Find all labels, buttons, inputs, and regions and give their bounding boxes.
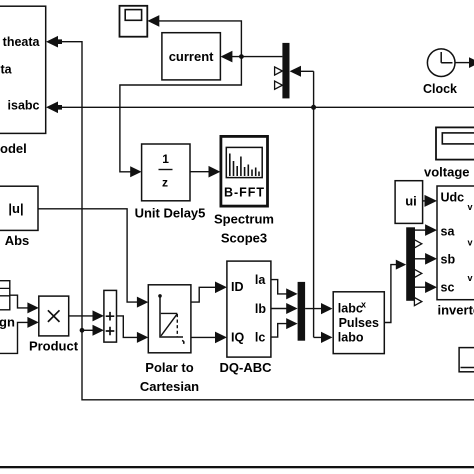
svg-text:voltage: voltage — [424, 164, 470, 179]
svg-text:ta: ta — [1, 63, 13, 77]
wire Ia to mux — [271, 280, 287, 294]
wire demux2 sb — [415, 258, 426, 260]
arrow into inverter sb — [425, 253, 437, 265]
demux2 bar — [406, 227, 415, 300]
block DQ-ABC — [220, 261, 273, 375]
svg-text:B-FFT: B-FFT — [224, 186, 265, 200]
svg-text:v: v — [468, 238, 473, 248]
svg-text:Udc: Udc — [441, 191, 465, 205]
svg-text:labc: labc — [338, 302, 363, 316]
arrow clock output — [469, 57, 474, 68]
block sign (cut off at left) — [0, 281, 15, 330]
wire branch to sum input 2 — [82, 329, 94, 331]
arrow into labc* — [321, 303, 333, 314]
arrow into labo — [321, 332, 333, 343]
wire pulses output to demux2 — [384, 265, 396, 323]
arrow into inverter sc — [425, 281, 437, 293]
arrow into B-FFT — [209, 166, 221, 178]
svg-text:x: x — [361, 300, 366, 310]
svg-text:lb: lb — [255, 302, 266, 316]
block sum — [104, 290, 117, 342]
wire ui output — [423, 200, 427, 202]
svg-text:ui: ui — [405, 194, 417, 209]
bottom separator line — [0, 466, 474, 468]
wire Ib to mux — [271, 308, 287, 310]
wire bus tap down to labo and up to demux1 — [301, 71, 323, 337]
wire demux1 out1 to current/scope/delay — [120, 21, 283, 172]
arrow into product input 1 — [27, 302, 38, 313]
svg-text:Cartesian: Cartesian — [140, 379, 199, 394]
wire isabc bus — [57, 106, 474, 108]
svg-text:v: v — [468, 273, 473, 283]
arrow into polar input 2 — [137, 332, 148, 343]
arrow into isabc — [46, 102, 62, 114]
svg-text:sc: sc — [441, 281, 455, 295]
svg-text:DQ-ABC: DQ-ABC — [220, 360, 273, 375]
wire mux output to labc* — [305, 308, 322, 310]
wire abs output to polar input 1 — [38, 209, 138, 302]
svg-text:gn: gn — [0, 315, 15, 330]
wire product output — [69, 315, 94, 317]
junction dot feedback to sum — [80, 328, 85, 333]
junction dot current wire — [239, 54, 244, 59]
arrow into demux1 right side — [290, 66, 301, 77]
wire demux2 sa — [415, 229, 426, 231]
svg-text:Scope3: Scope3 — [221, 230, 267, 245]
arrow into demux2 input — [396, 260, 406, 270]
junction dot bus tap — [311, 105, 316, 110]
block abs |u| (cut off at left) — [0, 186, 38, 248]
wire clock output — [455, 62, 469, 64]
block voltage display (cut off at right) — [424, 127, 474, 179]
hollow arrow demux2 port6 — [414, 298, 421, 306]
arrow into mux in2 — [286, 303, 297, 314]
block model (motor model, cut off at left) — [0, 6, 46, 156]
block product — [29, 296, 79, 353]
svg-text:ID: ID — [231, 280, 244, 294]
wire sign to product input 1 — [10, 295, 28, 308]
mux2 bar — [298, 282, 306, 341]
svg-text:Spectrum: Spectrum — [214, 211, 274, 226]
arrow into theata — [46, 36, 62, 48]
svg-text:Unit Delay5: Unit Delay5 — [135, 206, 206, 221]
svg-text:1: 1 — [162, 152, 169, 166]
block inverter (cut off at right) — [437, 186, 474, 318]
wire demux2 sc — [415, 286, 426, 288]
arrow into unit delay — [130, 166, 141, 177]
block pulses generator — [333, 292, 384, 354]
wire polar out2 to IQ — [191, 336, 216, 338]
wire sum output to polar input 2 — [117, 316, 139, 338]
svg-text:Pulses: Pulses — [339, 316, 379, 330]
svg-text:odel: odel — [0, 141, 27, 156]
arrow into IQ — [215, 332, 227, 344]
arrow into sum input 1 — [93, 310, 104, 321]
svg-text:IQ: IQ — [231, 331, 244, 345]
block scope1 — [120, 6, 148, 37]
block unit delay — [135, 144, 206, 221]
wire polar out1 to ID — [191, 287, 216, 302]
svg-text:|u|: |u| — [8, 201, 23, 216]
arrow into current — [221, 51, 233, 63]
block scope2 bottom right (cut off) — [459, 348, 474, 372]
wire to product input 2 — [0, 322, 28, 353]
hollow arrow demux1 port2 — [275, 67, 283, 75]
svg-text:v: v — [468, 202, 473, 212]
svg-text:current: current — [169, 49, 214, 64]
block B-FFT spectrum scope — [214, 136, 274, 245]
svg-text:inverter: inverter — [438, 303, 474, 318]
arrow into scope1 — [147, 15, 159, 27]
block current — [162, 33, 221, 80]
svg-text:Product: Product — [29, 338, 79, 353]
svg-text:theata: theata — [3, 35, 41, 49]
arrow into sum input 2 — [93, 325, 104, 336]
svg-text:Clock: Clock — [423, 82, 457, 96]
svg-text:sb: sb — [441, 253, 456, 267]
wire unit delay output to B-FFT — [190, 171, 210, 173]
arrow into mux in3 — [286, 318, 297, 329]
block polar to cartesian — [140, 285, 199, 394]
hollow arrow demux1 port3 — [275, 81, 283, 89]
wire theata feedback loop — [56, 42, 474, 400]
hollow arrow demux2 port4 — [414, 269, 421, 277]
demux1 bar (flipped demux) — [282, 43, 289, 99]
wire Ic to mux — [271, 324, 287, 338]
block ui — [395, 181, 423, 224]
arrow into inverter Udc — [425, 195, 438, 207]
svg-text:labo: labo — [338, 330, 364, 344]
arrow into mux in1 — [286, 288, 297, 299]
svg-text:z: z — [162, 176, 168, 190]
hollow arrow demux2 port2 — [414, 240, 421, 248]
svg-text:la: la — [255, 273, 266, 287]
svg-text:isabc: isabc — [8, 98, 40, 112]
arrow into product input 2 — [27, 317, 38, 328]
svg-text:lc: lc — [255, 331, 265, 345]
svg-text:Abs: Abs — [5, 233, 30, 248]
arrow into inverter sa — [425, 224, 437, 236]
arrow into ID — [215, 282, 227, 294]
svg-text:sa: sa — [441, 225, 456, 239]
arrow into polar input 1 — [137, 297, 148, 308]
block clock — [423, 49, 457, 96]
svg-text:Polar to: Polar to — [145, 360, 193, 375]
